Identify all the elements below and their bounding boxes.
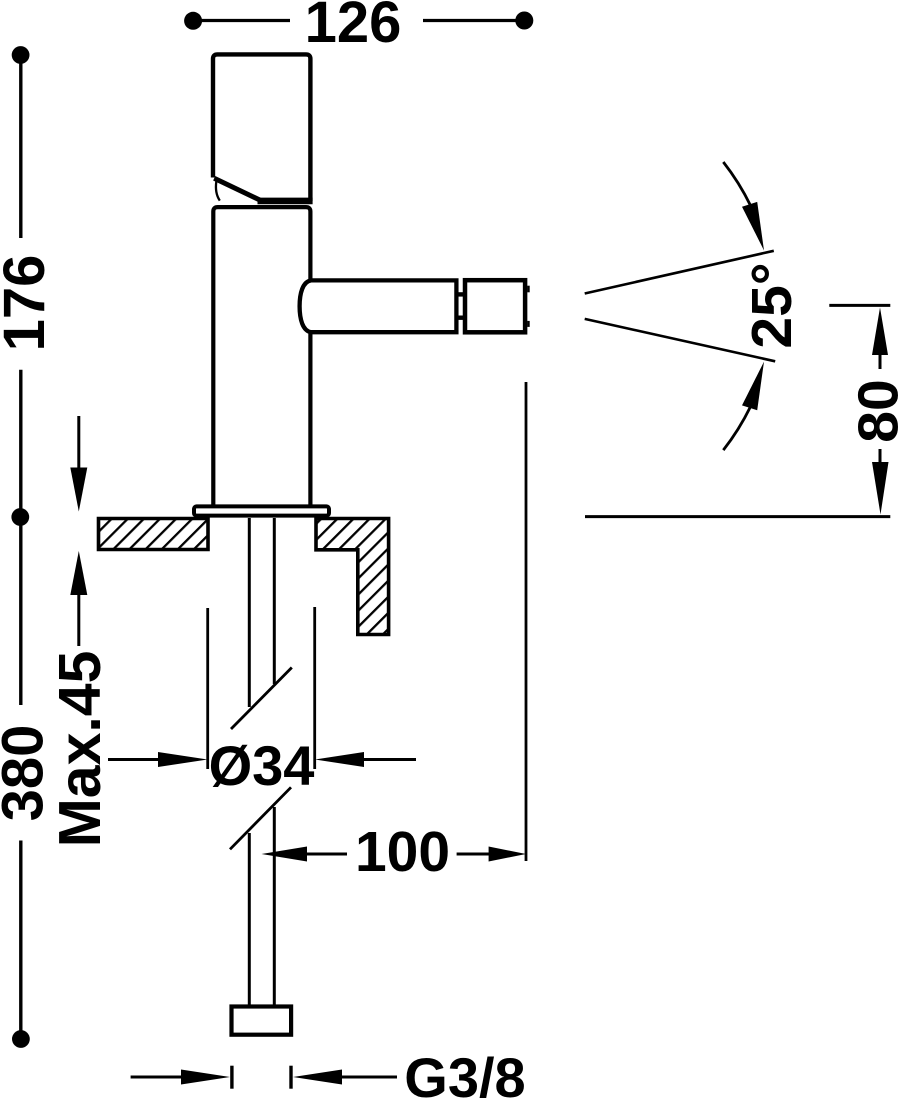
lever travel arc xyxy=(216,181,220,201)
spout xyxy=(300,280,457,332)
dim100 right arrowhead xyxy=(489,847,526,862)
g38 right arrowhead xyxy=(293,1070,342,1085)
handle lever xyxy=(213,54,310,201)
dim 126 line right xyxy=(423,19,518,22)
dia34 right arrowhead xyxy=(315,752,364,767)
svg-text:100: 100 xyxy=(355,820,450,884)
svg-text:25°: 25° xyxy=(740,262,804,348)
dim 380 dot bottom xyxy=(12,1030,30,1048)
dim 176 line lower xyxy=(19,370,22,514)
dim 380 line lower xyxy=(19,841,22,1034)
angle arrowhead upper xyxy=(742,202,764,251)
countertop right section, L-shaped (hatched) xyxy=(316,519,389,635)
dim shared dot middle xyxy=(11,508,29,526)
left supply pipe line upper xyxy=(248,518,251,707)
svg-text:80: 80 xyxy=(847,379,901,442)
base flange xyxy=(194,506,329,515)
dim 126 dot right xyxy=(515,12,533,30)
counter level line right xyxy=(585,515,890,518)
dim80 up arrow shaft xyxy=(879,353,882,369)
aerator xyxy=(465,280,525,332)
dim 380 line upper xyxy=(19,522,22,705)
right supply pipe line upper xyxy=(273,518,276,684)
reach reference line xyxy=(525,382,528,861)
svg-text:126: 126 xyxy=(305,0,402,55)
aerator nub bottom xyxy=(527,321,530,327)
faucet body column xyxy=(213,207,310,506)
max45 down arrow shaft xyxy=(77,416,80,470)
max45 up arrow shaft xyxy=(77,593,80,646)
spray line upper xyxy=(585,251,774,294)
g38 tick right xyxy=(289,1066,292,1089)
connection nut xyxy=(232,1007,292,1035)
g38 tick left xyxy=(230,1066,233,1089)
dim 126 line left xyxy=(198,19,290,22)
hole edge line left xyxy=(206,608,209,769)
g38 left arrowhead xyxy=(181,1070,230,1085)
dim80 down arrow shaft xyxy=(879,449,882,462)
svg-text:G3/8: G3/8 xyxy=(404,1046,525,1100)
break diagonal upper xyxy=(231,668,292,730)
dim100 right arrow shaft xyxy=(457,853,491,856)
svg-text:Ø34: Ø34 xyxy=(209,734,315,797)
hole edge line right xyxy=(313,607,316,769)
dim100 left arrowhead xyxy=(262,847,308,862)
countertop left section (hatched) xyxy=(99,519,209,550)
dim 176 line upper xyxy=(19,60,22,238)
max45 up arrowhead xyxy=(70,551,87,595)
dia34 left arrow shaft xyxy=(108,758,162,761)
left supply pipe line lower xyxy=(248,833,251,1005)
right supply pipe line lower xyxy=(273,807,276,1005)
break diagonal lower xyxy=(230,787,291,849)
aerator nub top xyxy=(527,286,530,293)
dim100 left arrow shaft xyxy=(305,853,347,856)
cartridge joint bar xyxy=(258,198,313,205)
dim80 up arrowhead xyxy=(872,308,888,356)
svg-text:Max.45: Max.45 xyxy=(47,651,113,848)
max45 down arrowhead xyxy=(70,468,87,512)
dim80 down arrowhead xyxy=(872,462,889,515)
neck stub top xyxy=(455,292,468,296)
angle arc lower xyxy=(723,407,750,451)
g38 right arrow shaft xyxy=(340,1076,397,1079)
spray line lower xyxy=(585,319,776,361)
angle arrowhead lower xyxy=(742,362,764,411)
angle arc upper xyxy=(723,162,750,206)
g38 left arrow shaft xyxy=(131,1076,184,1079)
dim 176 dot top xyxy=(12,46,30,64)
dim 126 dot left xyxy=(184,12,202,30)
lever diagonal edge xyxy=(214,178,260,200)
dia34 left arrowhead xyxy=(158,752,208,767)
dim80 top tick xyxy=(829,304,890,307)
svg-text:176: 176 xyxy=(0,255,57,352)
neck stub bottom xyxy=(455,316,468,320)
dia34 right arrow shaft xyxy=(362,758,416,761)
